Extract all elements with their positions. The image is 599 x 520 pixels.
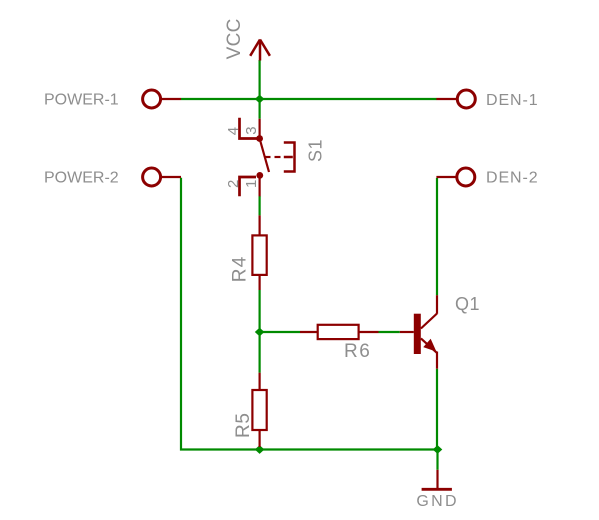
switch S1 [225,118,325,197]
resistor R4 [230,215,267,290]
pin DEN-2 circle [457,168,475,186]
R6 left pin [300,331,318,333]
S1 top contact dot [256,135,263,142]
S1 button cap [284,141,295,172]
pin POWER-1 circle [143,90,161,108]
R4 top pin [259,215,261,235]
wire: VCC stem down through junction to S1 pin 3 [259,60,261,119]
wire: R4 bottom through mid junction to R5 top [259,290,261,373]
S1 lever tick [264,156,270,158]
resistor R5 [233,373,267,447]
Q1 base bar [414,314,421,354]
wire: mid junction to R6 left [260,331,300,333]
Q1 emitter arrow [424,340,435,351]
node: junction mid at R4/R5/R6 [255,328,265,337]
svg-text:S1: S1 [305,139,325,162]
Q1 emitter diagonal [421,338,437,352]
svg-text:4: 4 [225,127,242,135]
Q1 collector diagonal [421,314,437,329]
node: junction bottom at R5 [255,445,265,454]
svg-text:R6: R6 [344,341,371,362]
svg-text:2: 2 [225,180,242,188]
S1 pin 2 bracket [240,177,257,196]
node: junction top at VCC rail [255,95,265,104]
pin POWER-1 stub [162,98,181,100]
S1 pin 1 stub [259,175,261,196]
svg-text:3: 3 [243,126,260,134]
svg-text:R4: R4 [230,255,251,282]
pin DEN-1 stub [436,98,456,100]
wire: S1 pin 1 to R4 top [259,196,261,215]
R6 body [318,325,359,339]
R6 right pin [359,331,379,333]
Q1 base pin stub [400,331,414,333]
pin DEN-2 stub [436,176,455,178]
svg-text:Q1: Q1 [455,294,480,314]
Q1 emitter pin [436,352,438,369]
S1 bottom contact dot [256,172,263,179]
Q1 collector pin [436,295,438,314]
pin POWER-2 circle [143,168,161,186]
wire: top net POWER-1 to DEN-1 [181,98,437,100]
R5 body [252,390,266,430]
svg-text:DEN-2: DEN-2 [486,169,539,186]
wire: DEN-2 down to Q1 collector [436,178,438,295]
S1 actuator dash [275,156,281,158]
S1 pin 3 stub [259,119,261,139]
S1 lever [260,139,269,173]
R4 body [252,235,266,275]
GND bar [422,488,452,491]
svg-text:POWER-1: POWER-1 [44,92,119,109]
resistor R6 [300,325,379,362]
svg-text:1: 1 [243,180,260,188]
svg-text:VCC: VCC [224,18,245,59]
wire: R6 right to Q1 base [379,331,400,333]
pin DEN-1 circle [457,90,475,108]
R5 top pin [259,373,261,390]
wire: Q1 emitter down to bottom junction [436,369,438,450]
node: junction bottom at GND [433,445,443,454]
R4 bottom pin [259,275,261,290]
R5 bottom pin [259,430,261,447]
transistor Q1 [400,294,480,369]
GND stem [436,470,438,490]
supply VCC arrow symbol [250,40,270,61]
pin POWER-2 stub [162,176,181,178]
S1 pin 4 bracket [240,118,259,139]
wire: bottom junction to GND symbol [436,450,438,470]
ground symbol [416,470,458,510]
svg-text:R5: R5 [233,413,254,439]
svg-text:DEN-1: DEN-1 [486,92,539,109]
svg-text:GND: GND [416,493,458,510]
wire: POWER-2 down and along bottom to GND junction [181,178,438,450]
svg-text:POWER-2: POWER-2 [44,169,119,186]
